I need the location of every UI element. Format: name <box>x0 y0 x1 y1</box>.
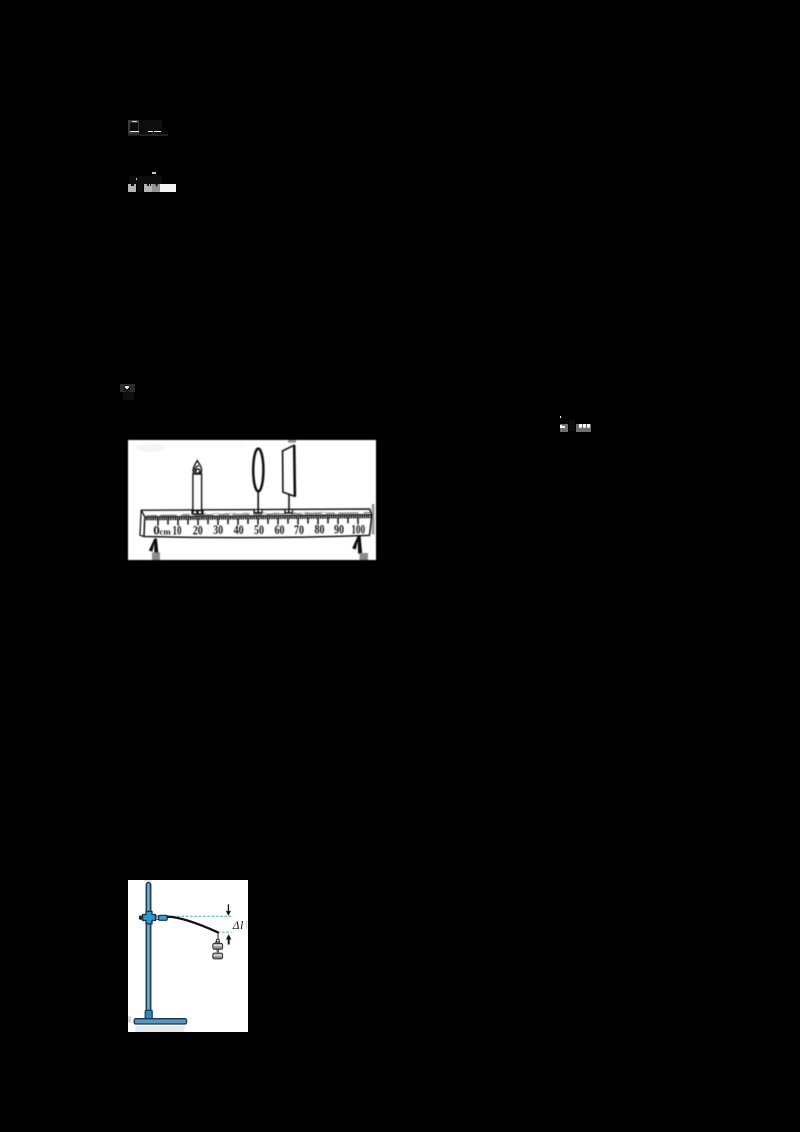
fragment D grey block 2 <box>576 424 591 432</box>
ruler 5cm ticks <box>158 518 358 526</box>
clamp cross <box>143 911 156 924</box>
clamp arm connector <box>156 916 159 919</box>
fragment D white mark on block1 <box>560 425 561 428</box>
bench left side face <box>140 510 145 536</box>
svg-text:20: 20 <box>193 522 203 537</box>
figure background <box>128 880 248 1032</box>
fragment A white underline 3 <box>154 131 161 132</box>
fragment B light grey block 1 <box>128 184 136 192</box>
screen stem <box>288 495 290 509</box>
weight 1 <box>213 942 223 949</box>
candle holder base <box>191 510 203 514</box>
svg-text:80: 80 <box>315 522 325 537</box>
candle flame <box>193 461 202 475</box>
fragment B dark notch 1 <box>131 184 134 186</box>
candle wick <box>195 466 200 474</box>
fragment A faint strip below <box>128 134 168 136</box>
fragment B white dot <box>136 178 138 180</box>
figure background <box>128 440 376 560</box>
fragment C white Y mark <box>125 386 129 388</box>
svg-text:70: 70 <box>294 522 304 537</box>
clamp arm <box>159 915 168 920</box>
left foot grey pad <box>152 552 160 560</box>
svg-text:90: 90 <box>334 522 344 537</box>
screen holder base <box>284 509 293 514</box>
weight 2 <box>213 953 223 959</box>
fragment C dark lower extension <box>123 392 134 400</box>
fragment B dark notch 2 <box>147 184 149 186</box>
fragment B white block <box>160 184 176 192</box>
bent rod (wire) <box>168 917 218 933</box>
fragment B mid grey block <box>152 184 159 192</box>
candle body <box>193 474 202 510</box>
fragment B dark notch 3 <box>150 184 151 186</box>
faint scan smudge top-left <box>136 443 166 451</box>
fragment A dark right part <box>139 120 162 133</box>
floor shadow <box>135 1026 184 1032</box>
figure: iron stand with bent rod and weights <box>128 880 248 1032</box>
lens holder base <box>253 509 262 513</box>
top edge smudge <box>144 880 152 882</box>
icon fragment C (small dark-mode image) <box>120 384 136 392</box>
fragment C dark ring <box>124 385 131 391</box>
left foot <box>149 538 159 553</box>
fragment B white dash <box>152 172 156 174</box>
svg-text:Δl: Δl <box>232 920 244 932</box>
svg-text:40: 40 <box>234 522 244 537</box>
right edge grey sliver <box>372 504 375 534</box>
lens <box>253 449 263 492</box>
fragment A white underline 2 <box>148 131 154 132</box>
hook line <box>217 932 219 939</box>
figure: optical bench (candle, lens, screen on ruler) <box>128 440 376 560</box>
clamp knob (left) <box>139 915 143 920</box>
fragment D white uu marks on block2 <box>579 424 582 428</box>
fragment D grey block 1 <box>560 424 568 432</box>
right foot <box>352 535 362 553</box>
top face scribble shading <box>146 513 370 516</box>
fragment B dark gap glyph <box>137 184 143 192</box>
up arrow <box>228 939 230 944</box>
svg-text:50: 50 <box>254 522 264 537</box>
bottom dashed reference line <box>218 931 232 933</box>
fragment B glyph area above <box>129 176 162 184</box>
svg-text:30: 30 <box>213 522 223 537</box>
right foot grey pad <box>360 553 369 560</box>
fragment A white curl top <box>132 121 138 123</box>
fragment D dark mid glyph <box>569 420 575 431</box>
ruler numbers <box>153 522 365 538</box>
base plate <box>134 1019 186 1024</box>
fragment B light grey block 2 <box>144 184 152 192</box>
top dashed reference line <box>169 915 232 917</box>
bench top face <box>141 509 372 517</box>
bench front face <box>144 515 372 538</box>
faint right tick <box>246 921 247 929</box>
grey smudge above screen <box>288 440 296 443</box>
equation fragment A (dark-mode formula image, row 1) <box>128 120 139 133</box>
fragment B dark notch 4 <box>155 184 158 187</box>
base connector block <box>145 1010 152 1019</box>
svg-text:10: 10 <box>173 522 182 537</box>
stand rod <box>146 882 151 1011</box>
down arrow <box>227 904 229 911</box>
left edge grey mark <box>128 1016 131 1022</box>
fragment A white underline 1 <box>130 131 140 133</box>
screen (tilted plane) <box>283 445 295 496</box>
s-hook between weights <box>217 949 219 952</box>
fragment D white dot <box>560 416 562 418</box>
hook ring <box>216 939 219 942</box>
ruler 1cm dense fringe <box>145 515 371 520</box>
svg-text:60: 60 <box>275 522 285 537</box>
fragment A glyph dark in grey box <box>130 123 137 131</box>
rod highlight stripe <box>148 884 149 1010</box>
lens stem <box>257 491 259 510</box>
svg-text:100: 100 <box>351 522 365 537</box>
